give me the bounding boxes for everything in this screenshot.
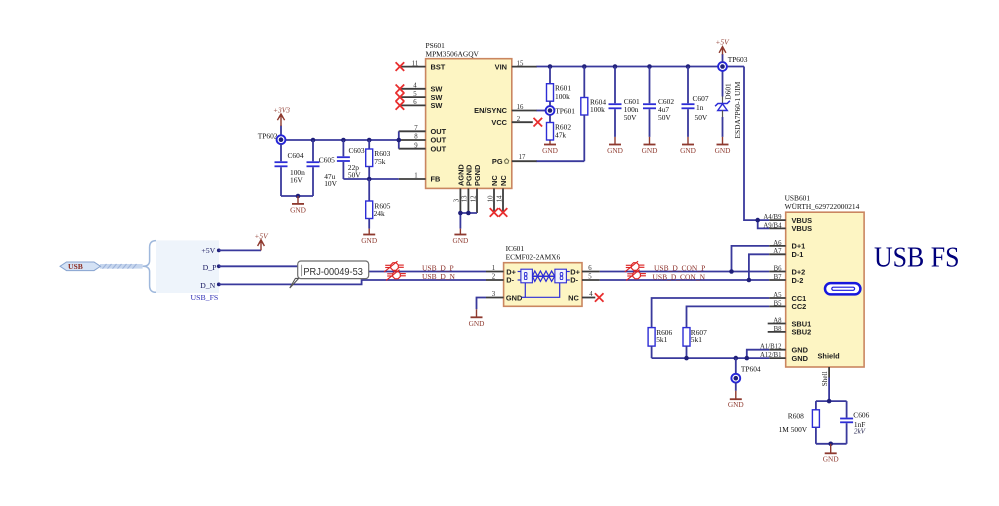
power +3V3 arrow	[277, 114, 284, 135]
ground under R602	[542, 141, 558, 155]
svg-text:NC: NC	[499, 175, 508, 186]
pin 16 EN/SYNC	[474, 104, 537, 115]
junction shell gnd	[828, 442, 833, 447]
svg-text:Shell: Shell	[821, 371, 829, 386]
svg-text:D_N: D_N	[200, 281, 216, 290]
svg-text:5: 5	[413, 91, 417, 98]
resistor R607	[683, 328, 707, 359]
power +5V arrow top	[719, 47, 726, 63]
svg-text:6: 6	[588, 265, 592, 272]
svg-text:1: 1	[414, 173, 417, 180]
pin A7 D-1	[769, 248, 803, 259]
pin B5 CC2	[769, 300, 806, 311]
pin 4 SW	[399, 83, 443, 94]
svg-text:B5: B5	[774, 300, 783, 307]
svg-text:A9/B4: A9/B4	[763, 222, 782, 229]
svg-text:B6: B6	[774, 265, 783, 272]
op-amp-block U PS601 MPM3506AGQV body	[426, 41, 512, 189]
pin 2 D- left	[486, 274, 515, 285]
svg-text:A4/B9: A4/B9	[763, 214, 782, 221]
svg-text:GND: GND	[469, 319, 485, 328]
svg-text:24k: 24k	[374, 209, 385, 218]
svg-text:2: 2	[517, 116, 521, 123]
wire 3V3 rail to OUT pins	[281, 131, 399, 148]
svg-text:WÜRTH_629722000214: WÜRTH_629722000214	[785, 202, 860, 211]
wire CC2	[687, 306, 770, 327]
ground under TP604	[728, 383, 744, 409]
svg-text:PG: PG	[492, 157, 503, 166]
ground under C604 C605	[290, 196, 306, 215]
svg-text:11: 11	[412, 60, 419, 67]
svg-text:PGND: PGND	[473, 164, 482, 186]
pin B8 SBU2	[768, 326, 812, 337]
pin A4/B9 VBUS	[763, 214, 812, 225]
svg-text:USB_D_CON_N: USB_D_CON_N	[653, 272, 706, 281]
pin A9/B4 VBUS	[763, 222, 812, 233]
svg-text:USB_D_CON_P: USB_D_CON_P	[654, 264, 705, 273]
capacitor C606	[840, 401, 870, 444]
junction dots on VIN rail	[548, 64, 553, 69]
junction C604 gnd	[296, 194, 301, 199]
svg-text:OUT: OUT	[431, 144, 447, 153]
wire +5V to power arrow	[219, 249, 261, 251]
junction dots on 3V3 rail	[311, 138, 316, 143]
svg-text:13: 13	[462, 195, 469, 202]
svg-text:D-: D-	[570, 276, 578, 285]
svg-text:9: 9	[414, 142, 418, 149]
svg-text:GND: GND	[607, 146, 623, 155]
capacitor C603	[337, 140, 365, 179]
resistor R601	[547, 67, 572, 107]
pin A8 SBU1	[768, 317, 812, 328]
ground under D601	[715, 137, 731, 155]
capacitor C604	[275, 144, 306, 196]
svg-text:A5: A5	[773, 292, 782, 299]
svg-text:GND: GND	[680, 146, 696, 155]
svg-text:50V: 50V	[695, 113, 708, 122]
svg-text:3: 3	[492, 291, 496, 298]
wire shield shell	[816, 378, 847, 402]
ground under IC601	[469, 309, 485, 328]
svg-text:VCC: VCC	[491, 118, 507, 127]
ground under C602	[642, 137, 658, 155]
junction AGND	[458, 211, 463, 216]
svg-text:14: 14	[496, 195, 503, 202]
ground under shell network	[823, 444, 839, 464]
junction VBUS	[755, 218, 760, 223]
capacitor C602	[643, 67, 674, 137]
no-connect X SW4	[396, 85, 405, 94]
wire GND rail bottom	[652, 350, 770, 358]
svg-text:R608: R608	[788, 412, 804, 421]
svg-text:7: 7	[414, 125, 418, 132]
testpoint TP602	[258, 131, 286, 144]
svg-text:GND: GND	[542, 146, 558, 155]
svg-text:50V: 50V	[624, 113, 637, 122]
svg-text:4: 4	[413, 83, 417, 90]
pin 1 D+ left	[486, 265, 517, 276]
wire FB node	[343, 178, 398, 180]
svg-text:C605: C605	[319, 155, 335, 164]
pin A1/B12 GND	[760, 344, 809, 355]
svg-text:GND: GND	[506, 293, 523, 302]
pin 1 FB	[399, 173, 441, 184]
junction TP604	[734, 356, 739, 361]
resistor R602	[547, 115, 572, 141]
no-connect X VCC	[534, 118, 543, 127]
wire VIN +5V rail	[537, 67, 770, 229]
power +5V arrow left	[258, 240, 265, 251]
svg-text:100k: 100k	[590, 105, 605, 114]
svg-text:B7: B7	[774, 274, 783, 281]
wire IC601 gnd	[477, 298, 487, 310]
svg-text:1M 500V: 1M 500V	[779, 425, 808, 434]
wire D_N	[219, 280, 486, 284]
wire USB_D_CON_N	[600, 254, 769, 280]
svg-text:GND: GND	[361, 236, 377, 245]
pin 9 OUT	[399, 142, 447, 153]
pin 8 OUT	[399, 134, 447, 145]
svg-text:GND: GND	[715, 146, 731, 155]
no-connect X BST	[396, 62, 405, 71]
resistor R605	[366, 179, 391, 229]
pin 17 PG	[492, 154, 537, 166]
svg-text:8: 8	[414, 134, 418, 141]
junction FB	[367, 177, 372, 182]
connector USB601 WURTH body	[785, 193, 865, 367]
junction shell	[827, 399, 832, 404]
svg-text:1n: 1n	[696, 103, 704, 112]
common-mode choke inside IC601	[518, 269, 570, 297]
usb-c symbol	[825, 283, 860, 294]
svg-text:EN/SYNC: EN/SYNC	[474, 106, 508, 115]
svg-text:3: 3	[454, 198, 461, 202]
pin A6 D+1	[769, 240, 805, 251]
svg-text:2: 2	[492, 274, 496, 281]
pin 4 NC right	[568, 291, 595, 302]
svg-text:C603: C603	[349, 146, 365, 155]
node D_P harness	[217, 264, 221, 268]
pin 14 NC	[496, 175, 508, 213]
pin B7 D-2	[769, 274, 803, 285]
svg-text:TP603: TP603	[728, 55, 748, 64]
no-connect X pin10	[490, 208, 499, 217]
svg-text:CC2: CC2	[792, 302, 807, 311]
svg-text:USB FS: USB FS	[874, 242, 960, 273]
svg-text:17: 17	[519, 154, 526, 161]
resistor R606	[648, 328, 672, 359]
svg-text:2kV: 2kV	[854, 427, 867, 435]
svg-text:GND: GND	[792, 354, 809, 363]
ground under C601	[607, 137, 623, 155]
testpoint TP603	[718, 55, 748, 71]
svg-text:D_P: D_P	[203, 263, 218, 272]
pin 10 NC	[487, 175, 499, 213]
harness entry tag USB	[60, 262, 101, 271]
svg-text:GND: GND	[728, 400, 744, 409]
capacitor C601	[609, 67, 641, 137]
svg-text:PRJ-00049-53: PRJ-00049-53	[303, 267, 363, 278]
svg-text:6: 6	[413, 99, 417, 106]
junction A1/B12	[745, 356, 750, 361]
resistor R608	[779, 401, 820, 444]
svg-text:SW: SW	[431, 101, 443, 110]
svg-text:C604: C604	[288, 151, 304, 160]
diode D601 ESD	[715, 71, 742, 139]
diff pair marker USB_D_CON_N	[626, 270, 646, 281]
wire D_P	[219, 266, 486, 271]
pin 5 SW	[399, 91, 443, 102]
wire AGND bus	[460, 213, 477, 229]
svg-text:OUT: OUT	[431, 136, 447, 145]
svg-text:MPM3506AGQV: MPM3506AGQV	[426, 50, 480, 59]
node D_N harness	[217, 283, 221, 287]
svg-text:VBUS: VBUS	[792, 224, 813, 233]
svg-text:B8: B8	[774, 326, 783, 333]
diff pair marker USB_D_N	[386, 270, 406, 281]
pin 5 D- right	[570, 274, 600, 285]
diff pair marker USB_D_CON_P	[625, 261, 645, 272]
svg-text:GND: GND	[642, 146, 658, 155]
svg-text:PS601: PS601	[426, 41, 446, 50]
wire R608 C606 bottoms	[816, 443, 847, 445]
svg-text:12: 12	[470, 195, 477, 202]
pin 3 AGND	[454, 164, 466, 213]
junction CON_N	[747, 278, 752, 283]
svg-text:4: 4	[589, 291, 593, 298]
no-connect X pin14	[499, 208, 508, 217]
ground under C607	[680, 137, 696, 155]
svg-text:D-: D-	[506, 276, 514, 285]
pin 2 VCC	[491, 116, 532, 127]
svg-text:C606: C606	[853, 410, 869, 419]
pin A12/B1 GND	[760, 352, 809, 363]
svg-text:50V: 50V	[348, 170, 361, 179]
ground under AGND	[452, 229, 468, 246]
svg-text:D601: D601	[724, 83, 733, 100]
svg-text:GND: GND	[823, 455, 839, 464]
svg-text:USB_FS: USB_FS	[191, 293, 219, 302]
pin 3 GND left	[486, 291, 523, 302]
svg-text:50V: 50V	[658, 113, 671, 122]
svg-text:5k1: 5k1	[691, 335, 702, 344]
svg-text:A8: A8	[773, 317, 782, 324]
svg-text:ECMF02-2AMX6: ECMF02-2AMX6	[506, 253, 561, 262]
no-connect X IC601 pin4	[595, 293, 604, 302]
pin 7 OUT	[399, 125, 447, 136]
svg-text:VIN: VIN	[495, 62, 507, 71]
pin 13 PGND	[462, 164, 474, 213]
svg-text:+3V3: +3V3	[273, 105, 290, 114]
wire CC1	[652, 298, 770, 328]
pin B6 D+2	[769, 265, 805, 276]
pin 12 PGND	[470, 164, 482, 213]
capacitor C607	[682, 67, 709, 137]
svg-text:TP601: TP601	[555, 106, 575, 115]
diff pair marker USB_D_P	[384, 261, 404, 272]
svg-text:100k: 100k	[555, 92, 570, 101]
capacitor C605	[307, 140, 338, 196]
IC U IC601 ECMF02-2AMX6 body	[504, 244, 582, 306]
svg-text:NC: NC	[568, 293, 579, 302]
junction R607 gnd	[684, 356, 689, 361]
harness brace	[143, 241, 156, 293]
svg-text:10V: 10V	[324, 179, 337, 188]
svg-text:ESDA7P60-1 UIM: ESDA7P60-1 UIM	[733, 81, 742, 138]
svg-text:1: 1	[492, 265, 495, 272]
svg-text:D-2: D-2	[792, 276, 804, 285]
pin 6 SW	[399, 99, 443, 110]
svg-text:D-1: D-1	[792, 250, 804, 259]
svg-text:5k1: 5k1	[656, 335, 667, 344]
resistor R604	[581, 67, 607, 162]
svg-text:TP602: TP602	[258, 131, 278, 140]
harness cable	[100, 264, 143, 269]
svg-text:GND: GND	[290, 206, 306, 215]
testpoint TP604	[731, 358, 761, 383]
junction CON_P	[729, 269, 734, 274]
svg-text:USB_D_N: USB_D_N	[422, 272, 456, 281]
pin 6 D+ right	[570, 265, 600, 276]
svg-text:TP604: TP604	[741, 364, 761, 373]
svg-text:+5V: +5V	[715, 37, 730, 46]
wire PG to R604	[537, 160, 585, 162]
svg-text:16: 16	[517, 104, 524, 111]
testpoint TP601	[546, 106, 576, 115]
svg-text:GND: GND	[452, 236, 468, 245]
note PRJ-00049-53	[290, 261, 369, 288]
svg-text:15: 15	[517, 60, 524, 67]
svg-text:A7: A7	[773, 248, 782, 255]
svg-text:16V: 16V	[290, 176, 303, 185]
svg-text:A6: A6	[773, 240, 782, 247]
resistor R603	[366, 140, 391, 179]
wire USB_D_CON_P	[600, 246, 769, 272]
svg-text:BST: BST	[431, 62, 446, 71]
pin Shield	[818, 351, 841, 386]
pin 11 BST	[399, 60, 446, 71]
svg-text:5: 5	[588, 274, 592, 281]
svg-text:75k: 75k	[374, 157, 385, 166]
pin 15 VIN	[495, 60, 537, 71]
svg-text:10: 10	[487, 195, 494, 202]
wire C604 C605 bottoms	[281, 195, 313, 197]
svg-text:USB: USB	[68, 262, 83, 271]
no-connect X SW6	[396, 101, 405, 110]
svg-text:SBU2: SBU2	[792, 328, 812, 337]
svg-text:+5V: +5V	[201, 246, 215, 255]
svg-text:Shield: Shield	[818, 351, 841, 360]
svg-text:NC: NC	[490, 175, 499, 186]
svg-text:FB: FB	[431, 175, 441, 184]
ground under R605	[361, 229, 377, 246]
svg-text:+5V: +5V	[254, 231, 269, 240]
svg-text:OUT: OUT	[431, 127, 447, 136]
no-connect X SW5	[396, 93, 405, 102]
wire EN/SYNC to TP601	[537, 110, 546, 112]
node +5V harness	[217, 249, 221, 253]
svg-text:C607: C607	[693, 94, 709, 103]
svg-text:47k: 47k	[555, 130, 566, 139]
harness panel USB_FS	[156, 240, 219, 293]
pin A5 CC1	[769, 292, 806, 303]
